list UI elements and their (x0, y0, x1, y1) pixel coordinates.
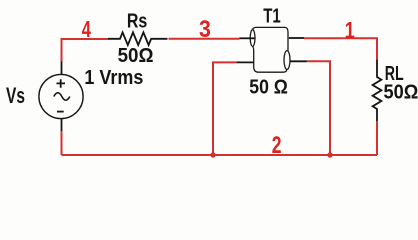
svg-text:T1: T1 (263, 4, 281, 27)
T1 pin 1 (top-left) (239, 37, 255, 39)
T1 pin 4 (bottom-right) (290, 60, 307, 62)
source Vs bottom lead (61, 119, 63, 131)
svg-text:Rs: Rs (127, 9, 147, 32)
svg-text:50 Ω: 50 Ω (249, 76, 288, 98)
transmission line T1 body (250, 27, 290, 72)
T1 pin 3 (top-right) (289, 37, 304, 39)
wire T1 pin2 down to rail (213, 62, 236, 155)
T1 pin 2 (bottom-left) (236, 61, 253, 63)
wire RL bottom to rail (376, 121, 378, 155)
junction right on rail (327, 152, 332, 157)
svg-text:3: 3 (199, 15, 211, 43)
junction left on rail (210, 152, 215, 157)
svg-text:1 Vrms: 1 Vrms (84, 67, 143, 89)
wire bottom rail node 2 (62, 154, 378, 156)
wire Rs to T1 pin1 (169, 38, 240, 40)
svg-text:4: 4 (82, 17, 92, 42)
resistor Rs (108, 32, 168, 45)
source Vs minus sign (57, 111, 64, 113)
wire top-left from source to Rs (62, 39, 108, 62)
resistor RL (373, 60, 382, 121)
svg-text:1: 1 (345, 18, 355, 44)
source Vs sine wave (54, 93, 70, 101)
svg-text:50Ω: 50Ω (384, 81, 418, 103)
svg-text:Vs: Vs (6, 85, 25, 109)
wire T1 pin4 down to rail (307, 61, 330, 155)
source Vs plus sign (57, 79, 66, 88)
source Vs circle (39, 74, 83, 118)
wire source bottom to rail (61, 131, 63, 155)
wire T1 pin3 to RL top (304, 38, 377, 60)
svg-text:2: 2 (272, 132, 282, 158)
svg-text:50Ω: 50Ω (118, 44, 154, 67)
source Vs top lead (61, 62, 63, 75)
